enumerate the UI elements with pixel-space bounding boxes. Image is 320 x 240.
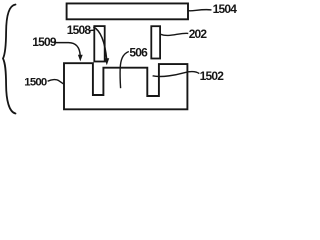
svg-text:1500: 1500 — [24, 77, 47, 89]
svg-text:202: 202 — [189, 27, 208, 41]
svg-text:1502: 1502 — [200, 69, 225, 83]
svg-text:1509: 1509 — [32, 35, 57, 49]
svg-text:1508: 1508 — [67, 23, 92, 37]
svg-text:1504: 1504 — [213, 2, 238, 16]
svg-text:506: 506 — [129, 45, 148, 59]
